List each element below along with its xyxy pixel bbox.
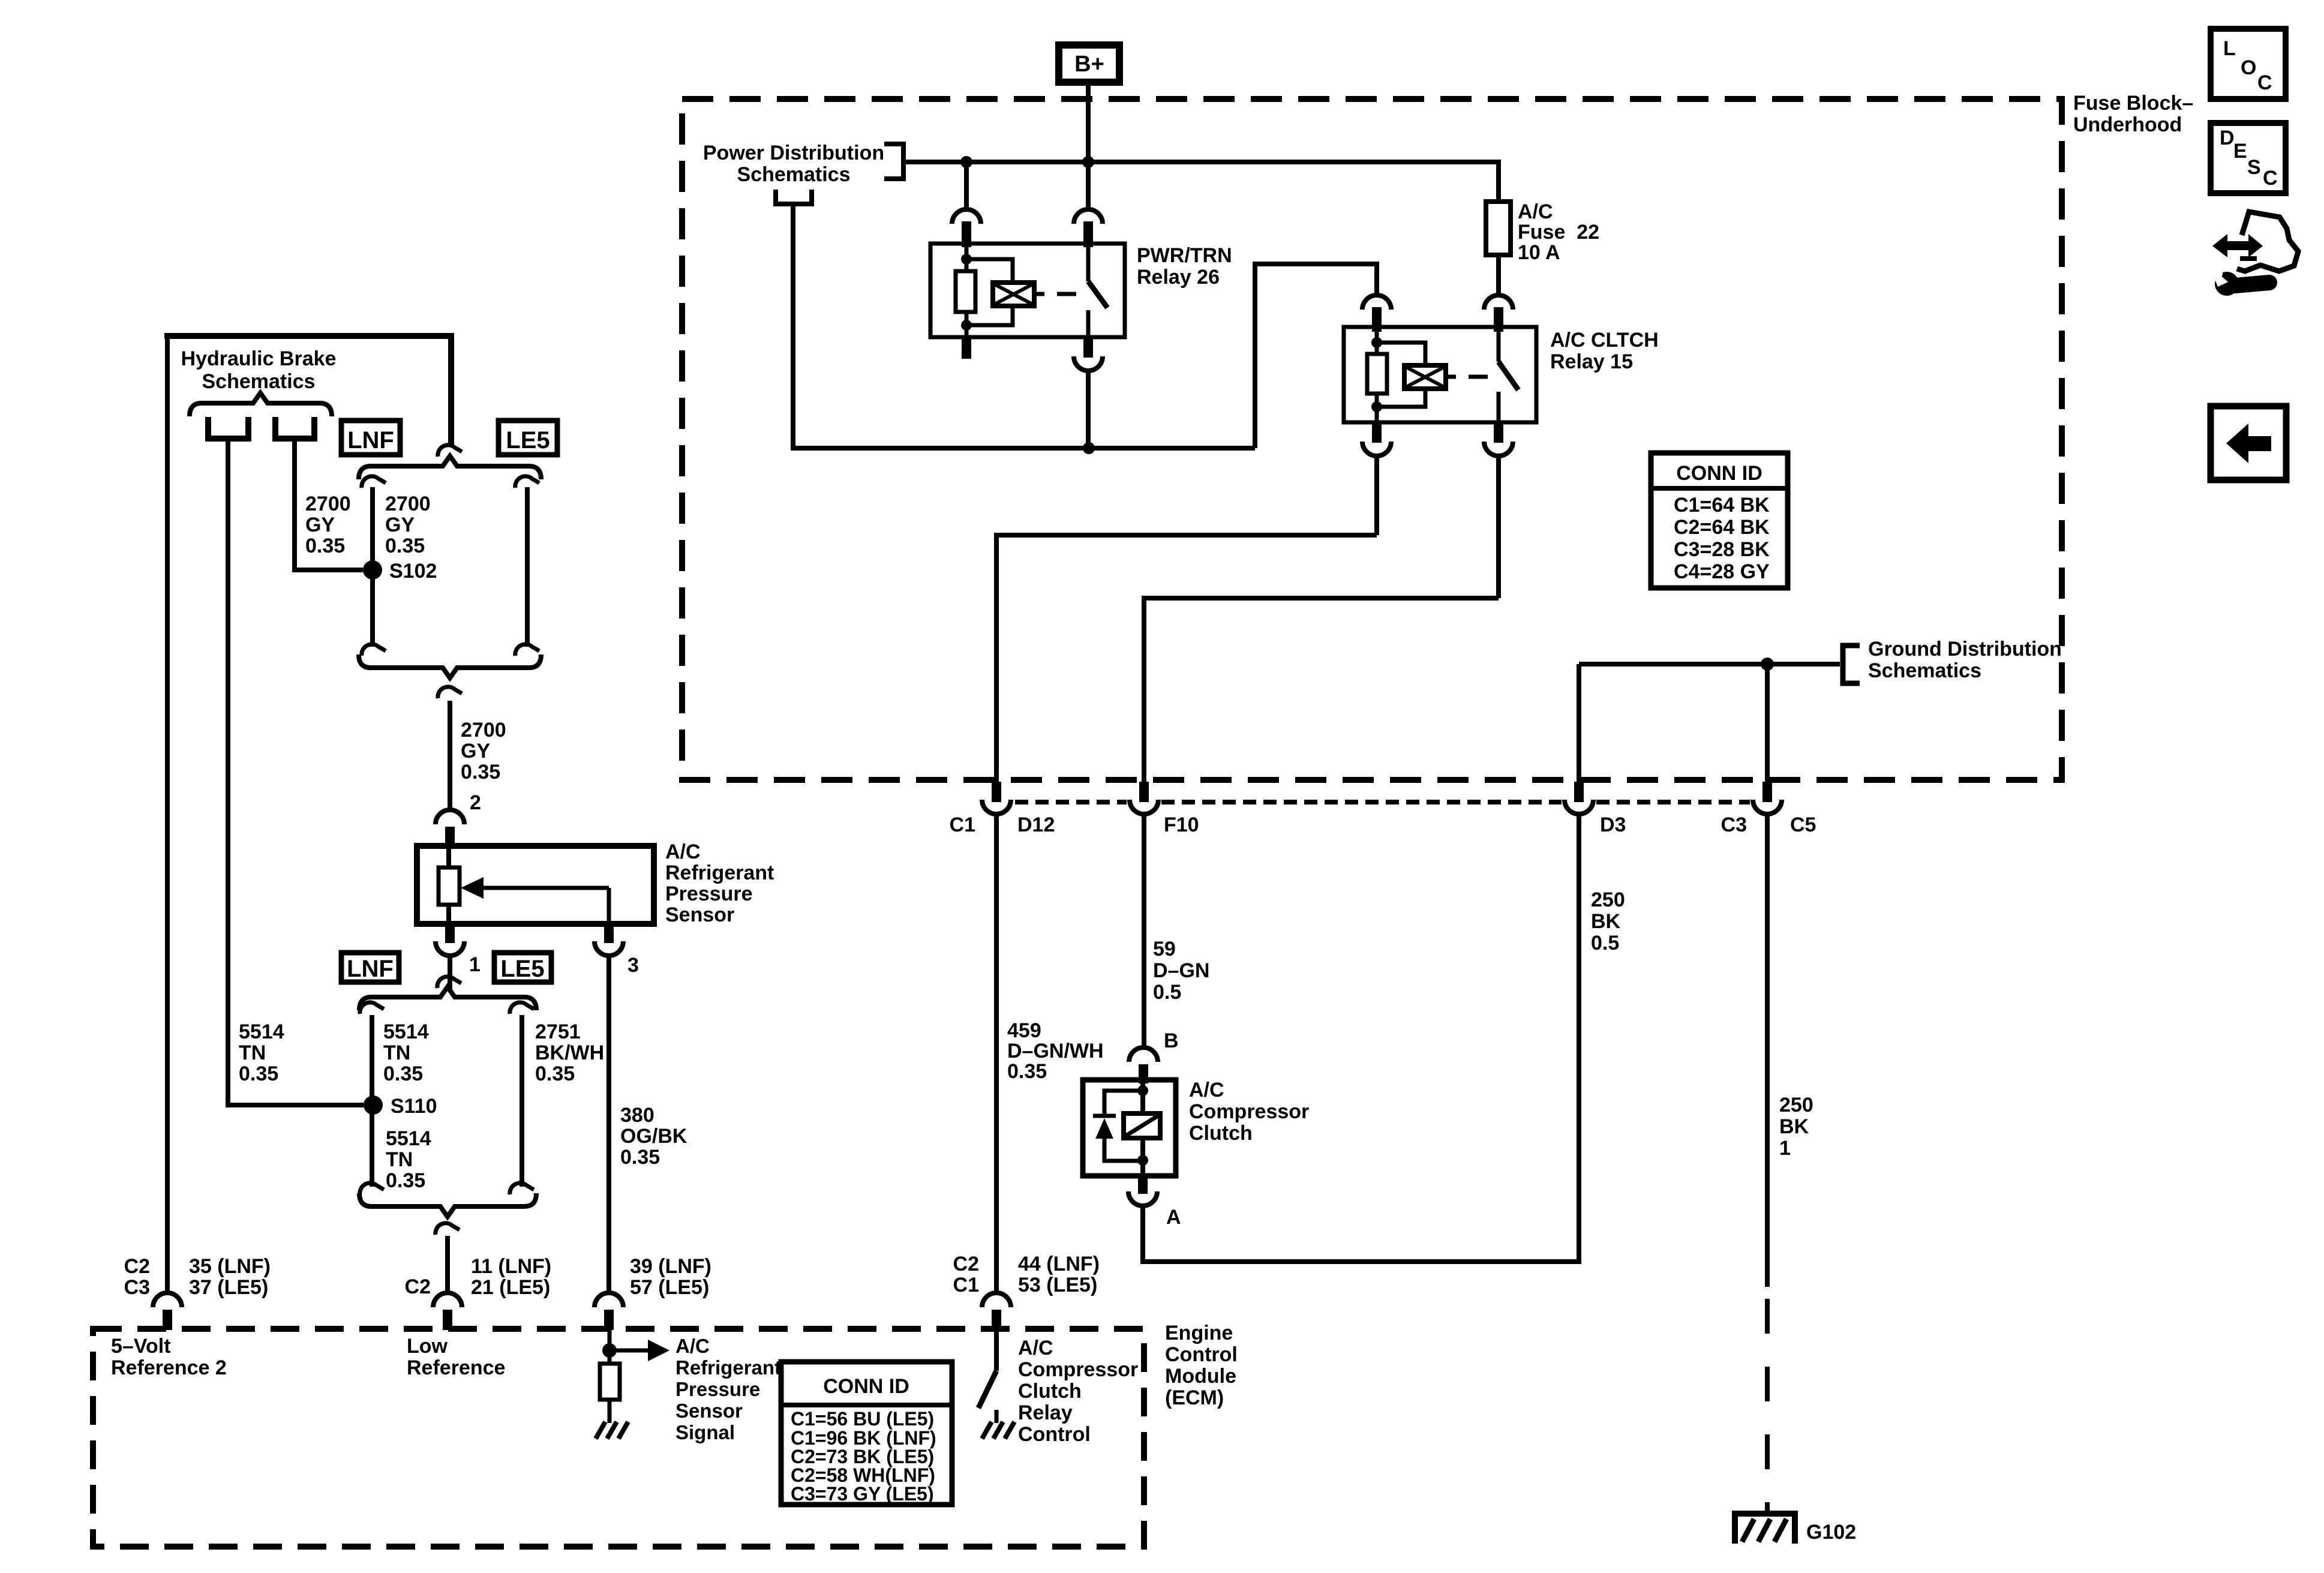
ground in ECM (signal) bbox=[596, 1422, 605, 1439]
A/C compressor clutch box bbox=[1083, 1080, 1176, 1176]
squiggle left branch 2 bottom bbox=[360, 1183, 384, 1194]
svg-text:Schematics: Schematics bbox=[1868, 659, 1981, 682]
svg-text:A/C: A/C bbox=[1518, 200, 1553, 223]
brace under hydraulic brake label bbox=[190, 393, 332, 416]
svg-text:GY: GY bbox=[385, 514, 415, 536]
svg-text:BK: BK bbox=[1779, 1115, 1809, 1138]
svg-text:TN: TN bbox=[383, 1041, 410, 1064]
wire fuse to CLTCH switch pin bbox=[1496, 255, 1501, 296]
U-pin terminal 2 (hydraulic brake) bbox=[275, 417, 314, 439]
relay box A/C CLTCH Relay 15 bbox=[1344, 327, 1536, 422]
wire low reference to ECM bbox=[445, 1236, 450, 1291]
squiggle right branch 2 bottom bbox=[510, 1183, 534, 1194]
svg-text:Clutch: Clutch bbox=[1018, 1380, 1082, 1403]
wire LNF branch lower (5514 TN) bbox=[370, 1015, 374, 1187]
svg-text:0.35: 0.35 bbox=[305, 535, 345, 557]
svg-text:C3: C3 bbox=[1721, 813, 1747, 836]
svg-text:Schematics: Schematics bbox=[737, 163, 851, 186]
wire to sensor pin 2 bbox=[448, 701, 452, 810]
svg-text:C5: C5 bbox=[1790, 813, 1816, 836]
svg-text:0.5: 0.5 bbox=[1591, 932, 1619, 954]
svg-text:2: 2 bbox=[470, 791, 481, 814]
svg-text:B: B bbox=[1164, 1029, 1179, 1052]
resistor PWR/TRN bbox=[956, 271, 975, 312]
diode branch wires bbox=[1104, 1091, 1143, 1115]
svg-text:0.35: 0.35 bbox=[383, 1062, 423, 1085]
connector arc below CLTCH coil bbox=[1372, 422, 1382, 443]
switch CLTCH bbox=[1497, 329, 1501, 362]
svg-text:TN: TN bbox=[386, 1148, 413, 1171]
connector arc PWR/TRN coil pin bbox=[964, 164, 969, 211]
svg-text:59: 59 bbox=[1153, 938, 1176, 960]
ECM connector arc 39/57 bbox=[594, 1293, 623, 1307]
split brace LNF/LE5 lower bbox=[359, 987, 536, 1010]
svg-text:OG/BK: OG/BK bbox=[620, 1125, 687, 1148]
engine code box LE5 (lower) bbox=[494, 953, 551, 982]
connector pin 1 below sensor bbox=[445, 924, 455, 943]
svg-text:Reference 2: Reference 2 bbox=[111, 1356, 227, 1379]
svg-text:250: 250 bbox=[1591, 888, 1625, 911]
svg-text:C3=73 GY (LE5): C3=73 GY (LE5) bbox=[791, 1483, 934, 1505]
wire resistor to ground bbox=[608, 1400, 612, 1423]
svg-text:0.35: 0.35 bbox=[386, 1169, 425, 1192]
squiggle below merge brace 2 bbox=[436, 1223, 460, 1235]
ground G102 symbol bbox=[1735, 1514, 1795, 1544]
svg-text:C1: C1 bbox=[950, 813, 975, 836]
connector arc CLTCH switch pin bbox=[1484, 295, 1513, 310]
splice S110 bbox=[364, 1095, 383, 1115]
svg-text:D: D bbox=[2220, 127, 2235, 149]
ECM interface dotted line bbox=[1015, 800, 1127, 804]
wire coil pin inside PWR/TRN bbox=[965, 247, 969, 271]
wire LE5 branch upper bbox=[525, 487, 530, 647]
split brace LNF/LE5 top bbox=[359, 456, 541, 479]
svg-text:21 (LE5): 21 (LE5) bbox=[471, 1276, 550, 1299]
svg-text:Fuse Block–: Fuse Block– bbox=[2073, 92, 2193, 115]
cavity connector at x=2946 bbox=[1762, 782, 1772, 802]
icon back arrow box bbox=[2211, 406, 2286, 480]
wire from U-pin1 down to S110 bbox=[228, 442, 364, 1105]
svg-text:LNF: LNF bbox=[347, 427, 394, 454]
ECM connector arc C2/C3 bbox=[153, 1293, 182, 1307]
bracket power distribution (right) bbox=[884, 144, 903, 179]
svg-text:S: S bbox=[2247, 156, 2261, 179]
svg-text:Refrigerant: Refrigerant bbox=[675, 1356, 781, 1379]
svg-text:GY: GY bbox=[461, 740, 490, 763]
splice S102 bbox=[363, 560, 382, 580]
ECM connector arc C2 low ref bbox=[433, 1293, 462, 1307]
wire through clutch bbox=[1140, 1080, 1145, 1176]
squiggle right branch 2 top bbox=[510, 1002, 534, 1014]
node clutch bottom bbox=[1137, 1155, 1148, 1166]
icon car with arrow and wrench bbox=[2237, 212, 2298, 271]
power bus wire bbox=[906, 160, 1499, 164]
svg-text:39 (LNF): 39 (LNF) bbox=[630, 1255, 711, 1278]
node PWR/TRN coil bottom bbox=[961, 320, 972, 331]
svg-text:E: E bbox=[2233, 140, 2247, 163]
icon DESC box bbox=[2211, 123, 2286, 193]
merge brace lower bbox=[359, 1193, 536, 1217]
svg-text:Fuse 22: Fuse 22 bbox=[1518, 221, 1599, 244]
svg-text:0.35: 0.35 bbox=[461, 761, 500, 784]
svg-text:A/C: A/C bbox=[675, 1335, 710, 1357]
svg-text:CONN ID: CONN ID bbox=[823, 1375, 909, 1398]
connector arc clutch pin B bbox=[1129, 1047, 1158, 1062]
svg-text:G102: G102 bbox=[1806, 1521, 1856, 1544]
wire 5-volt-ref left long wire (C2/C3 35/37) bbox=[165, 336, 170, 1291]
svg-text:Relay 15: Relay 15 bbox=[1550, 350, 1633, 373]
svg-text:C1=64 BK: C1=64 BK bbox=[1674, 494, 1770, 517]
node sensor signal junction bbox=[602, 1343, 617, 1358]
wire power distribution to relays bbox=[793, 206, 1255, 448]
fuse block underhood dashed box bbox=[682, 99, 2062, 780]
svg-text:37 (LE5): 37 (LE5) bbox=[189, 1276, 268, 1299]
cavity connector at x=1907 bbox=[1139, 782, 1149, 802]
ECM dashed box bbox=[93, 1329, 1144, 1547]
svg-text:LNF: LNF bbox=[347, 956, 394, 982]
wire coil pin inside CLTCH bbox=[1375, 332, 1379, 354]
wire from U-pin2 down to S102 bbox=[295, 442, 363, 570]
wiper arrow in sensor bbox=[481, 886, 609, 890]
merge brace LNF/LE5 bottom bbox=[359, 655, 541, 678]
wire CLTCH switch to F10 cavity bbox=[1144, 598, 1499, 799]
svg-text:11 (LNF): 11 (LNF) bbox=[471, 1255, 551, 1278]
svg-text:3: 3 bbox=[627, 954, 639, 977]
squiggle right branch top bbox=[515, 476, 539, 488]
dashed actuator link CLTCH bbox=[1446, 375, 1456, 379]
wire ground distribution bus bbox=[1579, 662, 1840, 667]
svg-text:5514: 5514 bbox=[239, 1020, 284, 1043]
connector arc below CLTCH switch bbox=[1494, 422, 1503, 443]
potentiometer resistor in sensor bbox=[446, 846, 451, 867]
svg-text:C4=28 GY: C4=28 GY bbox=[1674, 560, 1770, 583]
svg-text:F10: F10 bbox=[1164, 813, 1199, 836]
node ground bus junction bbox=[1761, 658, 1774, 671]
cavity connector at x=2632 bbox=[1574, 782, 1584, 802]
svg-text:Hydraulic Brake: Hydraulic Brake bbox=[181, 347, 337, 370]
svg-text:Schematics: Schematics bbox=[202, 370, 316, 393]
connector pin 3 below sensor bbox=[604, 924, 614, 943]
wire sensor signal inside ECM bbox=[608, 1330, 612, 1364]
node switch output junction bbox=[1083, 442, 1095, 454]
clutch coil (box with diagonal) bbox=[1124, 1113, 1160, 1138]
B+ box bbox=[1059, 45, 1119, 82]
svg-text:A/C: A/C bbox=[1189, 1079, 1224, 1101]
relay box PWR/TRN Relay 26 bbox=[930, 244, 1125, 337]
svg-text:(ECM): (ECM) bbox=[1165, 1386, 1224, 1409]
svg-text:5514: 5514 bbox=[386, 1127, 431, 1150]
wire C5 drop above cavity bbox=[1765, 667, 1770, 799]
svg-text:250: 250 bbox=[1779, 1094, 1813, 1116]
svg-text:Compressor: Compressor bbox=[1189, 1100, 1309, 1123]
connector arc CLTCH coil pin bbox=[1362, 295, 1391, 310]
squiggle right branch bottom bbox=[515, 644, 539, 656]
svg-text:C2=64 BK: C2=64 BK bbox=[1674, 516, 1770, 539]
svg-text:Engine: Engine bbox=[1165, 1322, 1233, 1344]
ground in ECM (relay control) bbox=[982, 1422, 992, 1439]
svg-text:0.35: 0.35 bbox=[239, 1062, 278, 1085]
node CLTCH coil top bbox=[1371, 337, 1382, 348]
svg-text:Sensor: Sensor bbox=[675, 1400, 743, 1422]
svg-text:53 (LE5): 53 (LE5) bbox=[1018, 1274, 1097, 1296]
icon LOC box bbox=[2211, 29, 2286, 99]
svg-text:Ground Distribution: Ground Distribution bbox=[1868, 638, 2062, 661]
wire to A/C CLTCH relay coil bbox=[1255, 264, 1377, 448]
svg-text:S102: S102 bbox=[389, 560, 437, 583]
svg-text:459: 459 bbox=[1007, 1019, 1041, 1042]
coil CLTCH (box with X) bbox=[1404, 365, 1446, 389]
svg-text:35 (LNF): 35 (LNF) bbox=[189, 1255, 271, 1278]
svg-text:Signal: Signal bbox=[675, 1421, 735, 1443]
wire 59 D-GN (F10 to clutch B) bbox=[1142, 814, 1146, 1046]
svg-text:A/C CLTCH: A/C CLTCH bbox=[1550, 329, 1659, 352]
squiggle below merge brace bbox=[438, 687, 462, 698]
wire CLTCH coil to D12 cavity bbox=[996, 535, 1377, 799]
node bus/coil junction bbox=[960, 156, 972, 168]
wire 250 BK 1 (C5 to G102) solid part bbox=[1765, 814, 1770, 1287]
connector arc clutch pin A bbox=[1138, 1176, 1148, 1194]
svg-text:D3: D3 bbox=[1600, 813, 1626, 836]
svg-text:BK: BK bbox=[1591, 910, 1621, 933]
switch PWR/TRN bbox=[1086, 246, 1091, 281]
svg-text:B+: B+ bbox=[1074, 52, 1104, 77]
connector arc PWR/TRN switch pin bbox=[1086, 164, 1091, 211]
svg-text:0.35: 0.35 bbox=[1007, 1060, 1047, 1083]
bracket power distribution (under text) bbox=[776, 190, 812, 204]
svg-text:Power Distribution: Power Distribution bbox=[703, 142, 884, 164]
svg-text:CONN ID: CONN ID bbox=[1676, 462, 1762, 485]
svg-text:LE5: LE5 bbox=[500, 956, 544, 982]
svg-text:C: C bbox=[2257, 71, 2272, 94]
squiggle left branch 2 top bbox=[360, 1002, 384, 1014]
svg-text:GY: GY bbox=[305, 514, 335, 536]
svg-text:0.35: 0.35 bbox=[620, 1146, 660, 1169]
svg-text:2751: 2751 bbox=[535, 1020, 581, 1043]
cavity connector at x=1661 bbox=[992, 782, 1001, 802]
coil branch wires PWR/TRN bbox=[966, 259, 1013, 283]
svg-text:Underhood: Underhood bbox=[2073, 113, 2182, 136]
svg-text:TN: TN bbox=[239, 1041, 266, 1064]
squiggle left branch top bbox=[362, 476, 386, 488]
connector arc pin 2 bbox=[436, 810, 464, 824]
node CLTCH coil bottom bbox=[1371, 401, 1382, 412]
svg-text:Clutch: Clutch bbox=[1189, 1122, 1253, 1145]
svg-text:BK/WH: BK/WH bbox=[535, 1041, 604, 1064]
svg-text:Control: Control bbox=[1165, 1343, 1238, 1366]
resistor in ECM (signal pulldown) bbox=[600, 1364, 620, 1400]
engine code box LNF (lower) bbox=[341, 953, 399, 982]
squiggle above split brace 2 bbox=[437, 977, 461, 988]
wire 250 BK 0.5 (D3 to clutch A) bbox=[1143, 814, 1579, 1262]
svg-text:Pressure: Pressure bbox=[675, 1378, 760, 1400]
svg-text:C2: C2 bbox=[953, 1253, 979, 1275]
coil branch wires CLTCH bbox=[1377, 343, 1425, 365]
connector arc below PWR/TRN switch bbox=[1083, 337, 1093, 358]
svg-text:1: 1 bbox=[469, 953, 481, 976]
svg-text:C: C bbox=[2263, 167, 2278, 190]
svg-text:C2: C2 bbox=[405, 1275, 431, 1298]
svg-text:Pressure: Pressure bbox=[665, 882, 753, 905]
wire LNF branch upper bbox=[370, 487, 375, 647]
svg-text:Relay 26: Relay 26 bbox=[1137, 266, 1220, 289]
connector squiggle below box right edge bbox=[438, 445, 462, 457]
svg-text:10 A: 10 A bbox=[1518, 241, 1560, 264]
svg-text:D12: D12 bbox=[1017, 813, 1055, 836]
dashed actuator link PWR/TRN bbox=[1034, 292, 1044, 296]
wire LE5 branch lower (2751 BK/WH) bbox=[520, 1015, 524, 1187]
svg-text:C2: C2 bbox=[124, 1255, 150, 1278]
svg-text:C1=56 BU (LE5): C1=56 BU (LE5) bbox=[791, 1408, 934, 1430]
squiggle left branch bottom bbox=[362, 644, 386, 656]
svg-text:Relay: Relay bbox=[1018, 1401, 1073, 1424]
svg-text:Refrigerant: Refrigerant bbox=[665, 861, 774, 884]
svg-text:5514: 5514 bbox=[383, 1020, 429, 1043]
diode (clutch suppression) bbox=[1093, 1114, 1116, 1118]
hydraulic brake schematics box outline bbox=[164, 333, 454, 339]
svg-text:D–GN: D–GN bbox=[1153, 959, 1209, 982]
node bus/B+ junction bbox=[1082, 156, 1094, 168]
svg-text:O: O bbox=[2241, 56, 2256, 79]
svg-text:A: A bbox=[1166, 1206, 1181, 1229]
svg-text:Sensor: Sensor bbox=[665, 903, 734, 926]
svg-text:C3: C3 bbox=[124, 1276, 150, 1299]
wire relay control inside ECM bbox=[994, 1330, 999, 1371]
svg-text:0.35: 0.35 bbox=[385, 535, 425, 557]
svg-text:Reference: Reference bbox=[407, 1356, 505, 1379]
U-pin terminal 1 (hydraulic brake) bbox=[208, 417, 248, 439]
svg-text:0.35: 0.35 bbox=[535, 1062, 575, 1085]
svg-text:C3=28 BK: C3=28 BK bbox=[1674, 538, 1770, 561]
engine code box LNF (upper) bbox=[341, 421, 400, 455]
svg-text:Module: Module bbox=[1165, 1365, 1236, 1388]
svg-text:380: 380 bbox=[620, 1104, 654, 1127]
svg-text:0.5: 0.5 bbox=[1153, 981, 1181, 1004]
svg-text:LE5: LE5 bbox=[506, 427, 550, 454]
svg-text:A/C: A/C bbox=[1018, 1337, 1053, 1359]
svg-text:Control: Control bbox=[1018, 1423, 1091, 1446]
A/C refrigerant pressure sensor box bbox=[417, 846, 654, 924]
node clutch top bbox=[1137, 1085, 1148, 1096]
wire resistor to bottom node CLTCH bbox=[1375, 394, 1379, 422]
CONN ID table (ECM) bbox=[781, 1362, 952, 1505]
PWR/TRN coil ground stub bbox=[962, 337, 971, 359]
CONN ID table (fuse block) bbox=[1651, 453, 1788, 588]
wire D3 drop above cavity bbox=[1577, 664, 1581, 799]
resistor CLTCH bbox=[1367, 354, 1387, 394]
svg-text:5–Volt: 5–Volt bbox=[111, 1335, 171, 1358]
ECM connector arc C2/C1 bbox=[982, 1293, 1011, 1307]
svg-text:PWR/TRN: PWR/TRN bbox=[1137, 244, 1232, 267]
coil PWR/TRN (box with X) bbox=[993, 283, 1034, 306]
svg-text:2700: 2700 bbox=[385, 493, 431, 515]
svg-text:1: 1 bbox=[1779, 1137, 1791, 1160]
svg-text:Low: Low bbox=[407, 1335, 448, 1358]
svg-text:A/C: A/C bbox=[665, 840, 701, 863]
svg-text:C1: C1 bbox=[953, 1274, 979, 1296]
wire bus to fuse bbox=[1496, 160, 1501, 202]
switch relay control driver bbox=[978, 1371, 996, 1408]
wire B+ feed bbox=[1086, 86, 1091, 162]
arrow A/C refrigerant pressure sensor signal bbox=[609, 1349, 649, 1353]
engine code box LE5 (upper) bbox=[499, 421, 557, 455]
svg-text:Compressor: Compressor bbox=[1018, 1358, 1138, 1381]
node PWR/TRN coil top bbox=[961, 254, 972, 265]
wire resistor to bottom node bbox=[965, 312, 969, 337]
svg-text:S110: S110 bbox=[391, 1095, 437, 1118]
fuse A/C Fuse 22 10A bbox=[1486, 202, 1511, 255]
wire 459 D-GN/WH (D12 to ECM) bbox=[994, 814, 999, 1291]
svg-text:2700: 2700 bbox=[305, 493, 351, 515]
svg-text:44 (LNF): 44 (LNF) bbox=[1018, 1253, 1100, 1275]
svg-text:57 (LE5): 57 (LE5) bbox=[630, 1276, 709, 1299]
wire 250 BK 1 dashed part bbox=[1765, 1299, 1770, 1513]
svg-text:2700: 2700 bbox=[461, 719, 506, 742]
svg-text:L: L bbox=[2223, 37, 2236, 60]
bracket ground distribution bbox=[1843, 646, 1860, 683]
svg-text:D–GN/WH: D–GN/WH bbox=[1007, 1040, 1104, 1062]
